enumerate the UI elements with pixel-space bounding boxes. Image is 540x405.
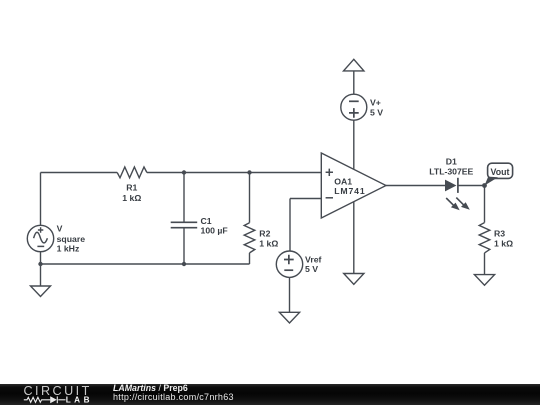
svg-text:1 kHz: 1 kHz: [57, 243, 80, 253]
svg-text:Vref: Vref: [305, 254, 322, 264]
svg-text:http://circuitlab.com/c7nrh63: http://circuitlab.com/c7nrh63: [113, 392, 234, 402]
svg-text:V: V: [57, 223, 63, 233]
svg-text:5 V: 5 V: [370, 108, 383, 118]
svg-text:V+: V+: [370, 98, 381, 108]
svg-text:R3: R3: [494, 228, 505, 238]
svg-text:R1: R1: [126, 183, 137, 193]
svg-text:LM741: LM741: [334, 186, 365, 196]
svg-text:OA1: OA1: [334, 177, 352, 187]
svg-text:100 µF: 100 µF: [201, 226, 228, 236]
svg-text:1 kΩ: 1 kΩ: [259, 239, 278, 249]
svg-text:D1: D1: [446, 156, 457, 166]
svg-text:LAB: LAB: [66, 395, 90, 404]
svg-text:1 kΩ: 1 kΩ: [122, 193, 141, 203]
svg-text:Vout: Vout: [491, 167, 510, 177]
svg-text:LTL-307EE: LTL-307EE: [429, 167, 473, 177]
svg-text:1 kΩ: 1 kΩ: [494, 239, 513, 249]
svg-text:R2: R2: [259, 228, 270, 238]
svg-text:square: square: [57, 234, 86, 244]
svg-text:C1: C1: [201, 216, 212, 226]
svg-text:5 V: 5 V: [305, 264, 318, 274]
